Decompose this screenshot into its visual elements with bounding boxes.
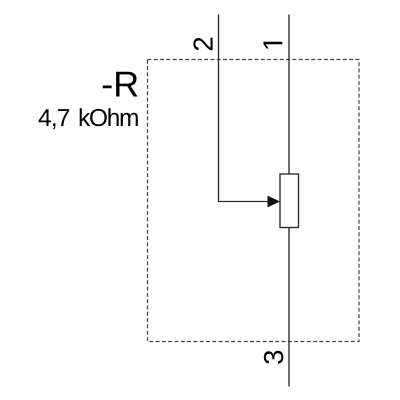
pin number 1	[263, 42, 282, 49]
potentiometer body R	[280, 174, 299, 228]
wire pin 1 top segment	[288, 15, 290, 175]
label -R	[103, 72, 138, 97]
value label 4,7 kOhm	[39, 108, 138, 129]
dashed enclosure box	[148, 60, 360, 342]
pin number 3	[264, 351, 284, 364]
wire pin 2 with wiper lead	[219, 15, 269, 202]
wiper arrowhead	[268, 196, 281, 208]
wire pin 3 bottom segment	[288, 228, 290, 387]
pin number 2	[193, 38, 212, 51]
